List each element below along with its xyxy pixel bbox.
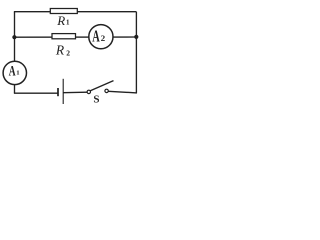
wire bottom left segment — [14, 92, 58, 94]
svg-text:1: 1 — [16, 70, 19, 77]
battery — [58, 79, 63, 104]
wire battery to switch — [63, 91, 87, 94]
wire left lower segment — [14, 37, 16, 93]
svg-text:2: 2 — [101, 33, 106, 43]
wire switch to corner — [108, 91, 136, 93]
svg-text:2: 2 — [66, 48, 70, 57]
wire right lower segment — [135, 37, 137, 93]
label R1 — [56, 13, 70, 28]
ammeter A1 — [3, 61, 26, 84]
wire middle branch — [15, 36, 137, 38]
svg-text:R: R — [55, 42, 65, 57]
wire right upper segment — [135, 12, 137, 37]
label R2 — [55, 42, 70, 57]
wire top segment — [14, 11, 136, 13]
resistor R2 — [52, 34, 76, 39]
svg-text:A: A — [92, 27, 100, 45]
svg-text:1: 1 — [66, 18, 70, 26]
ammeter A2 — [89, 25, 113, 49]
node left junction — [12, 35, 16, 39]
svg-text:R: R — [56, 13, 65, 28]
svg-text:A: A — [9, 62, 16, 79]
wire left upper segment — [14, 12, 16, 38]
resistor R1 — [50, 9, 77, 14]
svg-text:S: S — [93, 94, 99, 106]
switch S — [87, 81, 113, 106]
node right junction — [134, 35, 138, 39]
